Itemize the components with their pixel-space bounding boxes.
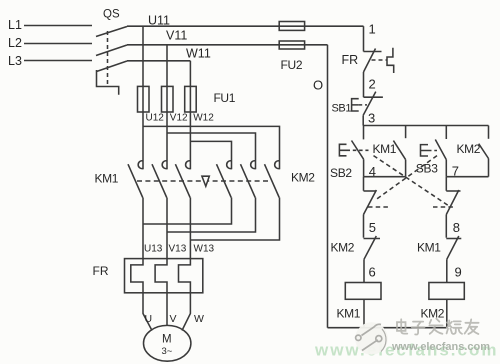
wire V to motor xyxy=(166,293,168,326)
node U13 xyxy=(144,244,163,255)
node L3 xyxy=(8,54,22,68)
wire tap U12 to KM2 xyxy=(143,126,280,169)
svg-text:W11: W11 xyxy=(186,47,211,61)
node 5 xyxy=(369,220,376,235)
wire phase2 to FU1 xyxy=(166,45,168,170)
contactor KM1 main contact 3 xyxy=(186,161,191,169)
node 3 xyxy=(368,111,375,126)
svg-text:7: 7 xyxy=(452,164,459,179)
button SB1 seat bar xyxy=(364,96,383,98)
fuse FU2 element 1 xyxy=(279,22,304,31)
svg-text:L1: L1 xyxy=(8,18,22,32)
wire L2 in xyxy=(24,43,92,45)
watermark logo circle xyxy=(355,322,388,355)
contact KM2 aux NO xyxy=(488,126,490,139)
button SB1 label xyxy=(332,103,352,115)
svg-text:3~: 3~ xyxy=(162,346,173,357)
svg-text:L2: L2 xyxy=(8,36,22,50)
wire tap W12 to KM2 xyxy=(190,141,231,169)
fuse FU1 element 1 xyxy=(138,86,150,112)
contact KM2 aux label xyxy=(457,142,481,156)
contact KM1 aux NO xyxy=(405,126,407,139)
svg-text:L3: L3 xyxy=(8,54,22,68)
wire SB3 bottom xyxy=(445,160,447,177)
node U11 xyxy=(148,14,170,28)
svg-text:V12: V12 xyxy=(170,113,188,124)
fuse FU1 element 3 xyxy=(185,86,197,112)
button SB3 label xyxy=(416,162,438,176)
svg-text:QS: QS xyxy=(103,9,120,21)
node V xyxy=(170,313,177,325)
button SB3 actuator xyxy=(421,145,429,156)
contact KM2 NC interlock label xyxy=(331,241,355,255)
contact KM1 aux label xyxy=(373,142,397,156)
wire SB3 top xyxy=(445,126,447,140)
interlock dashed foot right xyxy=(433,206,454,208)
thermal relay FR element 3 xyxy=(179,259,191,293)
relay FR NC linkage dashed xyxy=(372,59,387,61)
svg-text:U11: U11 xyxy=(148,14,170,28)
node W11 xyxy=(186,47,211,61)
wire coil KM1 to bus xyxy=(363,299,365,327)
wire node 7 xyxy=(446,176,488,178)
wire U11 xyxy=(127,25,364,27)
contactor KM1 main contact 2 xyxy=(162,161,167,169)
wire KM2 c2 down and join xyxy=(167,198,256,233)
wire phase1 to FU1 xyxy=(142,26,144,169)
node W xyxy=(194,313,204,325)
svg-text:O: O xyxy=(313,78,323,93)
svg-text:FU2: FU2 xyxy=(281,58,303,72)
node L1 xyxy=(8,18,22,32)
svg-text:KM2: KM2 xyxy=(291,171,315,185)
motor M xyxy=(144,325,191,361)
svg-text:1: 1 xyxy=(369,22,376,37)
svg-text:U: U xyxy=(145,313,153,325)
button SB1 linkage dashed xyxy=(359,104,367,106)
node 6 xyxy=(369,265,376,280)
wire U to motor xyxy=(143,293,152,331)
switch QS handle xyxy=(97,70,119,95)
switch QS blade 2 xyxy=(96,45,127,56)
switch QS blade 3 xyxy=(97,61,128,72)
contactor KM2 main contact 2 xyxy=(251,161,256,169)
wire node 4 xyxy=(364,176,406,178)
relay FR NC contact label xyxy=(342,53,359,67)
svg-text:KM2: KM2 xyxy=(421,307,445,321)
interlock dashed diagonal SB2 xyxy=(374,156,450,206)
contact SB2 NC in branch B xyxy=(445,177,447,191)
node 2 xyxy=(369,77,376,92)
wire coil KM2 to bus xyxy=(446,299,448,327)
node W13 xyxy=(194,244,215,255)
wire W11 xyxy=(127,60,190,62)
wire tap V12 to KM2 xyxy=(167,133,256,169)
contactor KM2 label xyxy=(291,171,315,185)
wire fuse1 to node 1 xyxy=(363,26,365,51)
node L2 xyxy=(8,36,22,50)
svg-text:FR: FR xyxy=(342,53,359,67)
svg-text:KM1: KM1 xyxy=(373,142,397,156)
svg-text:U13: U13 xyxy=(144,244,163,255)
button SB1 blade xyxy=(363,92,376,116)
rail O from fuse2 xyxy=(327,45,329,328)
wire L3 in xyxy=(24,60,92,62)
button SB2 label xyxy=(330,166,352,180)
svg-text:SB3: SB3 xyxy=(416,162,438,176)
button SB2 linkage dashed xyxy=(347,149,369,151)
svg-text:SB1: SB1 xyxy=(332,103,352,115)
contact SB3 NC in branch A xyxy=(363,177,365,191)
node V11 xyxy=(166,29,187,43)
contact KM2 NC interlock xyxy=(364,238,381,240)
interlock dashed foot left xyxy=(368,206,390,208)
relay FR NC seat bar xyxy=(364,51,382,53)
wire KM2 c3 down and join xyxy=(190,198,279,241)
relay FR trip element xyxy=(387,48,394,73)
fuse FU2 label xyxy=(281,58,303,72)
contactor KM2 main contact 3 xyxy=(275,161,280,169)
wire KM1 c3 down xyxy=(189,198,191,259)
node 9 xyxy=(455,265,462,280)
svg-text:V11: V11 xyxy=(166,29,187,43)
wire W to motor xyxy=(182,293,190,331)
node V13 xyxy=(169,244,187,255)
wire V11 xyxy=(127,44,328,46)
wire phase3 to FU1 xyxy=(189,61,191,170)
wire node 2 xyxy=(363,72,365,97)
wire node 3 xyxy=(362,115,364,125)
button SB2 actuator xyxy=(339,144,346,156)
wire KM2 c1 down and join xyxy=(143,198,232,225)
svg-text:U12: U12 xyxy=(146,113,165,124)
interlock dashed diagonal SB3 xyxy=(376,156,437,200)
svg-text:FU1: FU1 xyxy=(214,91,236,105)
switch QS linkage dashed xyxy=(107,31,109,87)
linkage dashed main contacts xyxy=(137,180,271,182)
watermark small text xyxy=(391,341,490,353)
thermal relay FR element 1 xyxy=(131,259,143,293)
watermark pale text xyxy=(314,341,498,360)
node W12 xyxy=(193,113,214,124)
svg-text:6: 6 xyxy=(369,265,376,280)
wire bottom bus xyxy=(328,327,447,329)
svg-text:W12: W12 xyxy=(193,113,214,124)
thermal relay FR label xyxy=(93,264,109,278)
coil KM1 xyxy=(345,283,381,300)
contactor KM1 main contact 1 xyxy=(138,161,143,169)
wire KM1 c1 down xyxy=(142,198,144,259)
svg-text:V: V xyxy=(170,313,177,325)
svg-text:KM1: KM1 xyxy=(417,241,441,255)
wire L1 in xyxy=(24,25,92,27)
wire KM1 c2 down xyxy=(166,198,168,259)
wire SB2 bottom xyxy=(363,159,365,177)
svg-text:KM1: KM1 xyxy=(95,172,119,186)
fuse FU1 label xyxy=(214,91,236,105)
button SB2 NO blade xyxy=(352,141,364,160)
switch QS label xyxy=(103,9,120,21)
svg-text:M: M xyxy=(162,334,172,346)
relay FR NC blade xyxy=(364,49,376,73)
contactor KM2 main contact 1 xyxy=(227,161,232,169)
svg-text:2: 2 xyxy=(369,77,376,92)
fuse FU2 element 2 xyxy=(279,41,304,49)
thermal relay FR element 2 xyxy=(155,259,167,293)
svg-text:W13: W13 xyxy=(194,244,215,255)
svg-text:9: 9 xyxy=(455,265,462,280)
button SB3 NO blade xyxy=(435,140,446,160)
node 1 xyxy=(369,22,376,37)
svg-text:4: 4 xyxy=(369,164,376,179)
svg-text:SB2: SB2 xyxy=(330,166,352,180)
node V12 xyxy=(170,113,188,124)
svg-text:8: 8 xyxy=(453,220,460,235)
node U xyxy=(145,313,153,325)
node 8 xyxy=(453,220,460,235)
node O label xyxy=(313,78,323,93)
node 4 xyxy=(369,164,376,179)
node 7 xyxy=(452,164,459,179)
svg-text:FR: FR xyxy=(93,264,109,278)
svg-text:KM2: KM2 xyxy=(331,241,355,255)
watermark CJK text 电子发烧友 xyxy=(397,319,479,335)
contact KM1 NC interlock xyxy=(446,238,461,240)
svg-text:KM1: KM1 xyxy=(337,307,361,321)
contact KM1 NC interlock label xyxy=(417,241,441,255)
button SB1 actuator xyxy=(352,99,359,111)
svg-text:3: 3 xyxy=(368,111,375,126)
fuse FU1 element 2 xyxy=(162,86,174,112)
svg-text:V13: V13 xyxy=(169,244,187,255)
linkage triangle marker xyxy=(202,176,209,186)
svg-text:www.elecfans.com: www.elecfans.com xyxy=(391,341,490,353)
contactor KM1 label xyxy=(95,172,119,186)
node U12 xyxy=(146,113,165,124)
thermal relay FR box xyxy=(125,259,203,293)
svg-text:5: 5 xyxy=(369,220,376,235)
switch QS blade 1 xyxy=(96,27,127,37)
wire SB2 top xyxy=(363,126,365,140)
svg-text:KM2: KM2 xyxy=(457,142,481,156)
svg-text:W: W xyxy=(194,313,204,325)
coil KM2 xyxy=(429,283,464,300)
wire bus node 3 xyxy=(363,125,488,127)
button SB3 linkage dashed xyxy=(428,150,437,152)
